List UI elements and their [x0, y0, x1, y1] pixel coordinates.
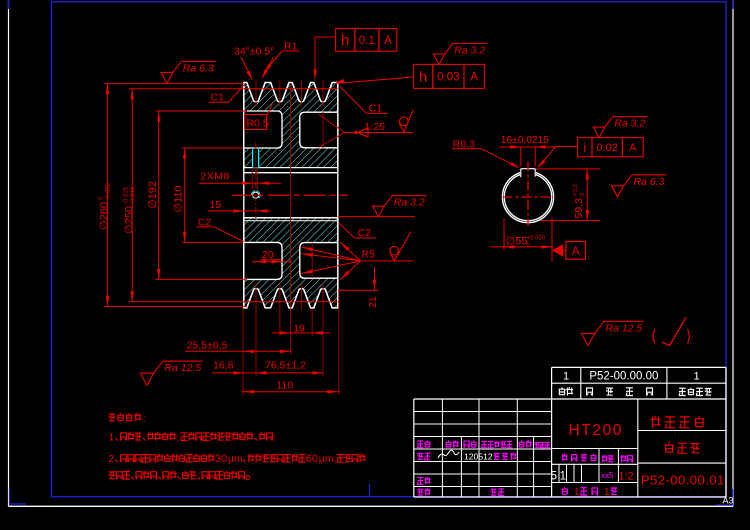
svg-text:30: 30: [215, 453, 227, 465]
svg-text:5: 5: [551, 470, 557, 482]
svg-text:A: A: [384, 35, 392, 47]
svg-text:Ra 3.2: Ra 3.2: [614, 118, 645, 130]
svg-text:R0.5: R0.5: [247, 118, 269, 130]
svg-text:2: 2: [109, 454, 115, 465]
svg-text:A: A: [470, 72, 478, 84]
svg-text:;: ;: [273, 433, 276, 443]
svg-text:+0.2: +0.2: [573, 183, 579, 196]
svg-text:1: 1: [693, 371, 699, 383]
svg-text:A: A: [629, 142, 637, 154]
svg-text:16,8: 16,8: [213, 359, 234, 371]
svg-text:-0.015: -0.015: [124, 186, 130, 204]
svg-text:15: 15: [210, 199, 222, 211]
svg-text:HT200: HT200: [569, 422, 624, 439]
svg-text:∅55: ∅55: [506, 235, 528, 247]
svg-text:34°±0.5°: 34°±0.5°: [234, 46, 274, 58]
svg-text:i: i: [583, 140, 586, 155]
svg-text:1: 1: [574, 487, 580, 498]
svg-text:25,5±0,5: 25,5±0,5: [187, 339, 228, 351]
svg-text:-0.052: -0.052: [106, 182, 112, 200]
svg-text:µm;: µm;: [319, 453, 337, 465]
svg-text:0.1: 0.1: [359, 35, 375, 47]
svg-text:110: 110: [277, 380, 294, 392]
svg-text:µm: µm: [228, 453, 243, 465]
svg-text:A3: A3: [723, 496, 734, 506]
svg-text:76,5±1,2: 76,5±1,2: [265, 359, 306, 371]
svg-text:∅110: ∅110: [173, 185, 185, 212]
svg-text:1: 1: [563, 371, 569, 383]
svg-text:h: h: [341, 32, 349, 49]
svg-text:P52-00.00.00: P52-00.00.00: [589, 371, 658, 383]
svg-text:Ra 6.3: Ra 6.3: [183, 62, 214, 74]
svg-text:1: 1: [604, 487, 610, 498]
svg-text:Ra 6.3: Ra 6.3: [634, 176, 665, 188]
svg-text:Ra 12.5: Ra 12.5: [164, 362, 201, 374]
svg-text:2XM8: 2XM8: [200, 170, 229, 182]
svg-text:A: A: [572, 244, 580, 258]
svg-text:;: ;: [176, 433, 179, 443]
svg-text:∅250: ∅250: [124, 206, 136, 234]
svg-text:120512: 120512: [464, 451, 493, 461]
svg-text:0.02: 0.02: [596, 142, 617, 154]
svg-text:59,3: 59,3: [573, 198, 585, 219]
svg-text:60: 60: [306, 453, 318, 465]
svg-text:1:25: 1:25: [365, 121, 386, 133]
svg-text:∅192: ∅192: [147, 181, 159, 209]
svg-text:∅260: ∅260: [99, 202, 111, 230]
svg-text:h: h: [419, 69, 427, 86]
svg-text:1:2: 1:2: [618, 471, 633, 483]
svg-text:Ra 3.2: Ra 3.2: [454, 45, 485, 57]
svg-text:C1: C1: [369, 103, 383, 115]
svg-text:+0.030: +0.030: [527, 235, 546, 241]
svg-text:1: 1: [109, 433, 115, 444]
svg-text:0.03: 0.03: [437, 72, 459, 84]
svg-text:C2: C2: [358, 227, 372, 239]
svg-text:C1: C1: [211, 92, 225, 104]
svg-text:21: 21: [368, 296, 379, 308]
svg-text:R5: R5: [362, 249, 376, 261]
svg-text:xx5: xx5: [601, 471, 614, 480]
svg-text:P52-00.00.01: P52-00.00.01: [641, 473, 725, 488]
svg-text:-0.044: -0.044: [131, 186, 137, 204]
svg-text:1: 1: [560, 470, 566, 482]
svg-text::: :: [143, 413, 146, 424]
svg-text:Ra 12.5: Ra 12.5: [606, 322, 643, 334]
svg-text:16±0,0215: 16±0,0215: [501, 135, 549, 146]
svg-text:Ra 3.2: Ra 3.2: [394, 197, 425, 209]
